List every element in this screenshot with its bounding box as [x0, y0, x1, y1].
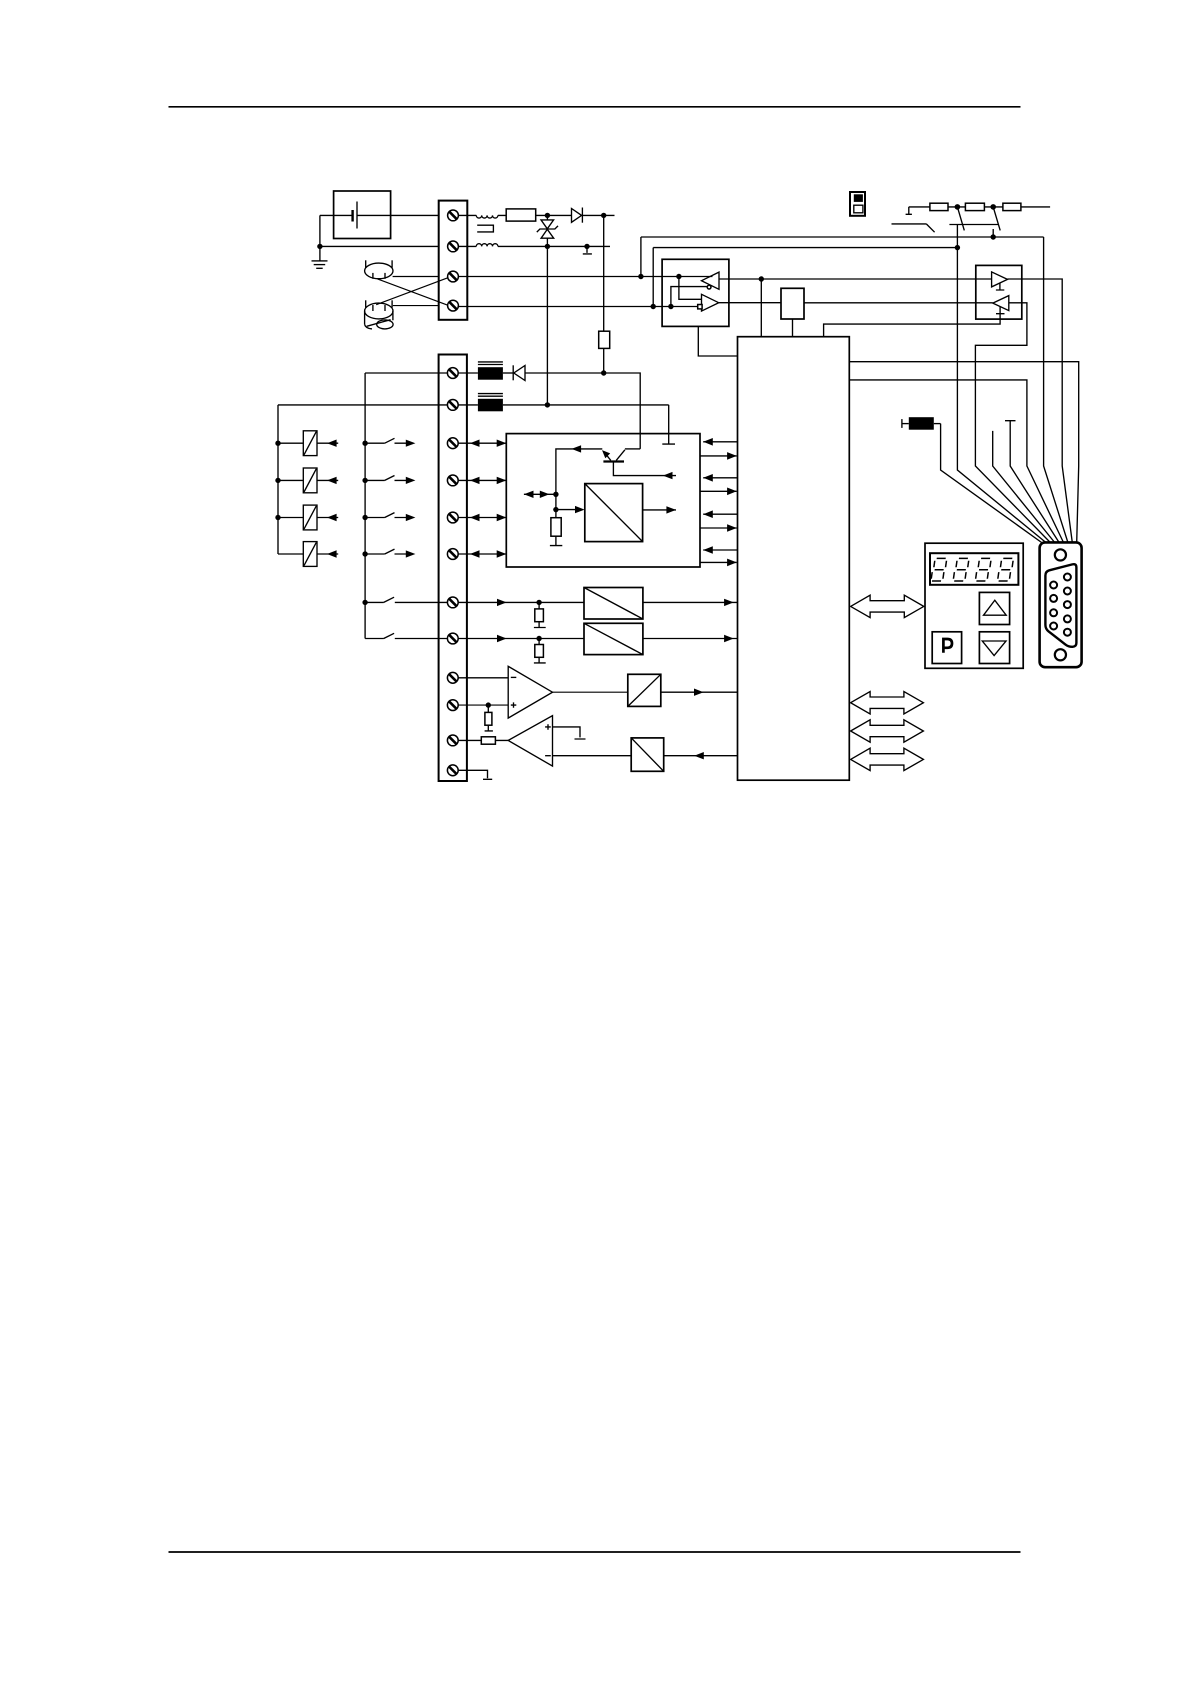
X3 pin 9 [1050, 623, 1057, 630]
receiver buffer U4B [993, 296, 1009, 311]
wire X1-4 long line to transceiver [458, 306, 697, 308]
terminal X2-12 [447, 765, 458, 776]
digit 1 [931, 558, 947, 581]
common-mode choke L1 winding A [476, 215, 498, 218]
wire W2 to CPU [643, 601, 738, 603]
X3 pin 4 [1064, 615, 1071, 622]
terminal X2-3 [447, 438, 458, 449]
X3 pin 1 [1064, 574, 1071, 581]
arrow on row 7 [497, 599, 507, 606]
X3 pin 5 [1064, 629, 1071, 636]
node fuse/TVS junction [545, 213, 550, 218]
isolation interface box A1 [506, 434, 700, 567]
node line B end on tap1 drop [955, 245, 960, 250]
wire U2A output to U4 [719, 278, 992, 280]
node row2 ground tie [584, 244, 589, 249]
terminal X2-2 [447, 400, 458, 411]
transceiver U2 box [662, 259, 729, 326]
node chain tap 2 [990, 204, 996, 210]
terminal block X1 [439, 201, 468, 320]
terminal X2-11 [447, 735, 458, 746]
wire W3 to CPU [643, 638, 738, 640]
wire diode to node [582, 214, 614, 216]
terminal X1-1 [448, 210, 459, 221]
wire X2-7 row to W2 [458, 601, 584, 603]
terminal X2-1 [447, 368, 458, 379]
arrow M1 to CPU [694, 689, 704, 696]
antenna tie T1 [1005, 421, 1059, 543]
wire battery minus down [319, 215, 321, 246]
transistor Q1 [602, 450, 625, 462]
resistor R10 with ground [534, 639, 546, 663]
terminal X2-6 [447, 549, 458, 560]
battery B1 (external supply box) [334, 191, 391, 239]
switch S7 digital input [365, 513, 415, 522]
wire N2 noninverting input tie [553, 727, 586, 739]
op-amp N1 [508, 666, 552, 718]
arrow CPU to M2 [694, 752, 704, 759]
button P [932, 632, 961, 664]
node TVS drop on row X2-2 [545, 402, 550, 407]
wire X2-1 row with +24V feed [365, 372, 478, 374]
terminal block X2 [439, 355, 467, 782]
wire R1 to row X2-1 [603, 348, 605, 373]
termination resistor chain wire [909, 206, 1050, 208]
digit 2 [953, 558, 969, 581]
demodulator M2 [631, 738, 664, 771]
node TVS to row 2 [545, 244, 550, 249]
digit 4 [998, 558, 1014, 581]
node opto bus row 3 [275, 515, 280, 520]
ground tie below U4A [996, 283, 1004, 290]
wire A1 to CPU signal 1 [703, 438, 737, 446]
resistor R7 [1003, 203, 1021, 210]
wire tap2 down to line A [992, 229, 994, 237]
node opto bus row 1 [275, 441, 280, 446]
node tap2 on line A [991, 234, 996, 239]
node chain tap 1 [955, 204, 961, 210]
button UP [979, 592, 1009, 624]
inductor L3 (ferrite) [478, 362, 503, 380]
modulator M1 [628, 674, 661, 706]
tacho generator G1 [365, 260, 393, 279]
resistor R5 [930, 203, 948, 210]
wire X2-12 to ground [458, 770, 492, 779]
wire X1-1 row to fuse/diode [458, 214, 571, 216]
tie below U4B with enable run to CPU [824, 307, 1005, 337]
wire M1 to X1-4 [393, 305, 439, 307]
node supply rail [601, 213, 606, 218]
wire X1-3 long line to transceiver [458, 276, 712, 278]
arrow on base wire [572, 445, 582, 452]
optocoupler O4 [278, 542, 338, 567]
wire emitter to right [613, 462, 676, 476]
node line B tap on row 4 [651, 304, 656, 309]
terminal X1-3 [448, 271, 459, 282]
wire thermistor to DB9 [941, 424, 1042, 543]
driver buffer U2B [702, 294, 719, 311]
bus arrow port 3 [851, 748, 924, 770]
choke L1 core [477, 225, 493, 232]
node switch bus row 2 [362, 478, 367, 483]
wire U4A output to DB9 [1008, 279, 1073, 543]
wire A1 to CPU signal 3 [703, 474, 737, 482]
arrow into DC/DC converter [556, 506, 585, 513]
wire TVS node down to X2-2 row [546, 246, 548, 405]
terminal X2-9 [447, 672, 458, 683]
node switch bus row 1 [362, 441, 367, 446]
switch S3 blade [957, 207, 964, 231]
wire U3 to CPU [792, 319, 794, 337]
wire base feedback left [556, 449, 602, 494]
arrow W2 to CPU [724, 599, 734, 606]
ground (earth symbol) [312, 261, 328, 268]
connector X3 (DB9) body [1040, 542, 1082, 667]
node R1 bottom on row [601, 370, 606, 375]
wire stem to ground [319, 246, 321, 261]
wire terminal row 3 to isolation box (bidirectional) [458, 514, 506, 521]
X3 pin 2 [1064, 588, 1071, 595]
wire X2-11 row [458, 739, 508, 741]
jumper block S1 icon [850, 192, 865, 216]
terminal X2-4 [447, 475, 458, 486]
resistor R9 with ground [534, 602, 546, 627]
wire RXD branch to CPU [760, 279, 762, 337]
node row3 inner junction [676, 274, 681, 279]
X3 pin 7 [1050, 595, 1057, 602]
wire X2-10 row to op-amp [458, 704, 508, 706]
buffer U3 [781, 288, 804, 319]
wire stub to DB9 [993, 431, 1055, 543]
wire X1-2 row [458, 245, 610, 247]
resistor R4 [481, 737, 495, 744]
wire N2 inverting input to demodulator [553, 755, 632, 757]
bubble on U2A [707, 285, 711, 289]
wire opto common bus [277, 405, 279, 554]
wire switch common bus [364, 373, 366, 639]
microprocessor U5 [738, 337, 850, 781]
X3 screw hole bottom [1055, 649, 1066, 660]
wire line A to DB9 [1044, 237, 1068, 543]
terminal X2-7 [447, 597, 458, 608]
wire CPU to DB9 (line 1) [849, 362, 1078, 543]
wire X2-9 row to op-amp [458, 677, 508, 679]
driver buffer U4A [992, 272, 1008, 287]
wire V3 to collector drop [525, 373, 640, 449]
terminal X1-4 [448, 300, 459, 311]
fuse F1 [506, 209, 536, 221]
switch S10 input 8 [365, 633, 447, 638]
wire G1 cross to X1-4 [378, 279, 448, 305]
wire down to R2 node [555, 494, 557, 509]
optocoupler O3 [278, 505, 338, 530]
X3 pin 3 [1064, 601, 1071, 608]
optocoupler O1 [278, 431, 338, 456]
diode V2 [572, 208, 583, 223]
inductor L4 (ferrite) [478, 394, 503, 412]
node row 8 divider [536, 636, 541, 641]
terminal X2-10 [447, 700, 458, 711]
wire collector top [625, 448, 640, 450]
node switch bus row 7 [362, 600, 367, 605]
arrow on row 8 [497, 635, 507, 642]
bus arrow port 1 [851, 692, 924, 714]
wire A1 to CPU signal 6 [700, 524, 737, 532]
wire terminal row 1 to isolation box (bidirectional) [458, 440, 506, 447]
node switch bus row 4 [362, 551, 367, 556]
terminal X2-5 [447, 512, 458, 523]
wire CPU to DB9 (line 2) [849, 380, 1063, 543]
wire A1 to CPU signal 7 [703, 546, 737, 554]
node switch bus row 3 [362, 515, 367, 520]
terminal X2-8 [447, 633, 458, 644]
X3 screw hole top [1055, 549, 1066, 560]
wire M1 to CPU [661, 691, 738, 693]
motor M1 [365, 300, 394, 329]
wire A1 to CPU signal 5 [703, 510, 737, 518]
node battery/ground junction [317, 244, 322, 249]
node row4 inner junction [668, 304, 673, 309]
X3 D-shell [1045, 564, 1076, 647]
arrow W1 output [643, 506, 676, 513]
wire tap1 down (to RS485 line B and DB9) [957, 225, 1046, 543]
wire U2B output to buffer U3 [719, 302, 781, 304]
node R2 top [553, 507, 558, 512]
ground tie on row 2 [583, 246, 592, 254]
wire supply rail down [603, 215, 605, 331]
wire row4 junction to receiver enable [671, 287, 707, 307]
bottom rule [169, 1551, 1021, 1553]
wire N1 output to modulator [553, 691, 628, 693]
top rule [169, 106, 1021, 108]
wire M1 cross to X1-3 [376, 278, 448, 305]
optocoupler O2 [278, 468, 338, 493]
button DOWN [979, 632, 1009, 664]
wire X2-8 row to W3 [458, 638, 584, 640]
node row 10 divider [486, 702, 491, 707]
ground tie left of chain [906, 207, 912, 214]
wire U3 to U4 driver [804, 302, 993, 304]
node opto bus row 2 [275, 478, 280, 483]
common-mode choke L1 winding B [476, 244, 498, 247]
switch S9 input 7 [365, 597, 447, 602]
wire X2-2 row to box [278, 404, 669, 406]
wire U4B input from DB9 [975, 303, 1050, 543]
X3 pin 8 [1050, 609, 1057, 616]
arrow W3 to CPU [724, 635, 734, 642]
switch common bar [949, 224, 998, 226]
bus arrow port 2 [851, 720, 924, 742]
wire G1 to X1-3 [393, 276, 439, 278]
op-amp N2 [508, 716, 552, 766]
diode V3 [503, 365, 525, 380]
wire terminal row 2 to isolation box (bidirectional) [458, 477, 506, 484]
wire row3 junction to driver input [679, 277, 702, 300]
wire battery to terminal X1-1 [320, 214, 439, 216]
switch S8 digital input [365, 549, 415, 558]
7-segment display DS1 [930, 553, 1018, 585]
enable square on U2B [698, 305, 702, 309]
node line A tap on row 3 [638, 274, 643, 279]
thermistor R8 [902, 417, 941, 430]
wire line A down to receive pair [640, 237, 642, 277]
wire A1 to CPU signal 4 [700, 488, 737, 496]
switch S5 digital input [365, 438, 415, 447]
switch S6 digital input [365, 476, 415, 485]
X3 pin 6 [1050, 582, 1057, 589]
arrow on emitter wire [663, 472, 673, 479]
node RXD branch [759, 276, 764, 281]
transceiver U4 box [976, 265, 1022, 319]
switch S4 blade [993, 207, 1000, 231]
wire RS485 line B (second bus line) [653, 247, 957, 249]
node feedback junction [553, 492, 558, 497]
wire M2 to CPU [664, 755, 738, 757]
node row 7 divider [536, 600, 541, 605]
resistor R2 [550, 510, 562, 546]
resistor R6 [965, 203, 984, 210]
switch S2 (open) [892, 224, 935, 232]
wire terminal row 4 to isolation box (bidirectional) [458, 550, 506, 557]
resistor R1 [599, 331, 610, 348]
DC/DC converter W1 [585, 484, 643, 542]
TVS suppressor V1 (bidirectional) [537, 215, 558, 246]
wire to terminal X1-2 [320, 245, 439, 247]
DC/DC converter W2 [584, 588, 643, 620]
wire line B down to transmit pair [652, 248, 654, 307]
wire A1 to CPU signal 2 [700, 452, 737, 460]
terminal X1-2 [448, 241, 459, 252]
receiver buffer U2A [702, 272, 720, 289]
digit 3 [975, 558, 991, 581]
wire row2 into isolation box ground [662, 405, 675, 444]
wire RS485 line A (top bus line) [641, 236, 1044, 238]
resistor R3 with ground [485, 705, 493, 731]
bidirectional stub arrow [524, 491, 556, 498]
wire U2 box to CPU [698, 326, 737, 356]
wire A1 to CPU signal 8 [700, 559, 737, 567]
bus arrow CPU-keypad [851, 595, 924, 617]
keypad/display panel A2 [925, 543, 1023, 668]
DC/DC converter W3 [584, 623, 643, 654]
